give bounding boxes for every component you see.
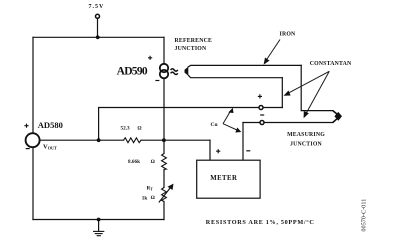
- wire: lower constantan run to measuring junction: [243, 122, 333, 124]
- wire: left rail lower: [32, 147, 34, 219]
- svg-text:7.5V: 7.5V: [89, 4, 105, 10]
- reference junction terminal +: [259, 106, 263, 110]
- wire: ground stub: [98, 220, 100, 232]
- meter M1 box: [197, 160, 260, 198]
- svg-text:RESISTORS ARE 1%, 50PPM/°C: RESISTORS ARE 1%, 50PPM/°C: [206, 219, 315, 226]
- wire: left rail upper: [32, 37, 34, 133]
- svg-text:METER: METER: [210, 175, 237, 182]
- svg-text:Ω: Ω: [151, 195, 155, 201]
- wire: meter minus drop: [242, 123, 244, 161]
- svg-text:CONSTANTAN: CONSTANTAN: [310, 61, 352, 67]
- svg-text:00570-C-011: 00570-C-011: [362, 199, 368, 232]
- svg-text:RT: RT: [147, 186, 154, 192]
- svg-text:REFERENCE: REFERENCE: [175, 38, 213, 44]
- AD590 U1 two-circle current source symbol: [160, 64, 168, 79]
- wire: 7.5V stub: [97, 19, 99, 38]
- wire: top rail: [33, 36, 164, 38]
- svg-text:8.66k: 8.66k: [128, 159, 140, 165]
- svg-text:AD580: AD580: [38, 120, 63, 130]
- wire: bottom rail: [33, 219, 164, 221]
- resistor RT 1k trimmer: [162, 188, 167, 202]
- wire: constantan segment up to cable bottom: [281, 78, 283, 108]
- wire: between 8.66k and RT: [163, 170, 165, 188]
- wire: main rail junction to meter plus corner: [164, 139, 210, 141]
- svg-text:AD590: AD590: [117, 66, 148, 78]
- wire: 52.3 resistor to AD590 lead junction: [141, 139, 164, 141]
- svg-text:52.3: 52.3: [121, 125, 130, 131]
- wire: thermocouple cable bottom line: [188, 75, 282, 77]
- svg-text:JUNCTION: JUNCTION: [290, 142, 322, 148]
- resistor R1 52.3 ohm: [124, 138, 142, 143]
- node: junction dot AD580 rail left: [97, 138, 101, 142]
- wire: AD590 bottom lead down to 8.66k: [163, 78, 165, 153]
- svg-text:Ω: Ω: [138, 125, 142, 131]
- measuring junction solid diamond: [334, 112, 342, 121]
- ground: [97, 218, 101, 222]
- approx squiggle between AD590 and cable: [171, 69, 178, 75]
- wire: meter plus drop: [209, 140, 211, 160]
- svg-text:MEASURING: MEASURING: [287, 132, 325, 138]
- svg-text:1k: 1k: [142, 195, 148, 201]
- svg-text:Cu: Cu: [211, 122, 218, 128]
- resistor R2 8.66k: [162, 154, 167, 170]
- svg-text:IRON: IRON: [280, 32, 297, 38]
- svg-text:Ω: Ω: [151, 159, 155, 165]
- wire: copper riser from AD580 rail up: [99, 108, 283, 141]
- svg-text:JUNCTION: JUNCTION: [175, 46, 207, 52]
- thermocouple cable end cap: [185, 67, 189, 76]
- svg-text:VOUT: VOUT: [43, 144, 57, 151]
- wire: thermocouple cable top line: [188, 65, 301, 67]
- AD580 U2 reference circle: [26, 133, 40, 147]
- node: junction dot 7.5V on top rail: [96, 35, 100, 39]
- node: junction dot AD590 lead on rail: [162, 138, 166, 142]
- wire: RT to bottom rail: [163, 202, 165, 220]
- wire: AD580 output to 52.3 resistor: [40, 139, 124, 141]
- reference junction terminal -: [260, 121, 264, 125]
- wire: AD590 top lead: [163, 37, 165, 64]
- node: 7.5V supply terminal: [96, 14, 100, 18]
- wire: iron run from cable top to measuring junction: [301, 65, 333, 110]
